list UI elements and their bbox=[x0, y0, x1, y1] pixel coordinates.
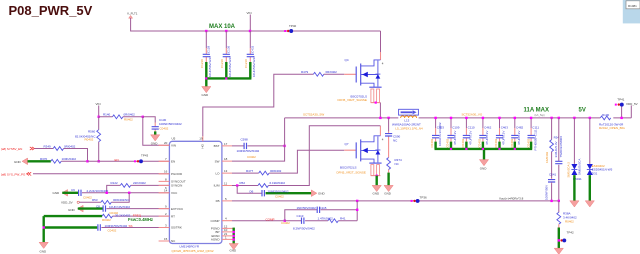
svg-text:TP36: TP36 bbox=[420, 196, 428, 200]
svg-text:DFN5_VR2T_SGNSE: DFN5_VR2T_SGNSE bbox=[338, 98, 367, 102]
svg-text:C136: C136 bbox=[227, 45, 231, 53]
svg-text:C129: C129 bbox=[207, 45, 211, 53]
transistor Q4 BSC0702LS bbox=[338, 52, 384, 103]
svg-text:R370: R370 bbox=[40, 157, 48, 161]
svg-text:0R/0402: 0R/0402 bbox=[124, 113, 136, 117]
annotation 5V bbox=[579, 107, 586, 113]
svg-text:R100: R100 bbox=[602, 113, 610, 117]
junction on VIN bus at C136 bbox=[225, 30, 227, 32]
junctions 5V rail right bbox=[550, 117, 591, 119]
svg-text:SS: SS bbox=[129, 224, 133, 228]
svg-text:10UF/10V/0402: 10UF/10V/0402 bbox=[109, 205, 130, 209]
capacitor C378 330UF bulk bbox=[554, 118, 563, 201]
ground D5011 bbox=[570, 175, 579, 207]
resistor R54 feedback top bbox=[545, 118, 559, 178]
svg-text:R0402: R0402 bbox=[565, 220, 574, 224]
svg-text:C463: C463 bbox=[501, 126, 509, 130]
tooltip R1081 bbox=[626, 1, 640, 9]
annotation 11A MAX bbox=[524, 107, 549, 117]
svg-text:R479: R479 bbox=[301, 70, 309, 74]
svg-text:C433: C433 bbox=[251, 45, 255, 53]
wire Q4 drain from VIN bus bbox=[380, 31, 382, 52]
resistor R38A 3.4K feedback bottom bbox=[557, 201, 577, 228]
resistor R52 6.19R ILIM bbox=[232, 126, 380, 188]
svg-text:R349: R349 bbox=[44, 144, 52, 148]
svg-text:R52: R52 bbox=[240, 181, 246, 185]
transistor Q7 BSC0702LS bbox=[337, 126, 384, 176]
svg-text:[a8] SYS_PW_PG: [a8] SYS_PW_PG bbox=[1, 173, 26, 177]
test point TP40 bbox=[284, 24, 296, 33]
ground Q7 source bbox=[372, 176, 381, 196]
svg-text:C541: C541 bbox=[549, 173, 557, 177]
svg-text:100NF/50V: 100NF/50V bbox=[544, 185, 548, 200]
ground tree lower left bbox=[39, 216, 102, 253]
net SYS5V_EN off-page bbox=[1, 147, 34, 151]
wire VO 5V rail bbox=[419, 117, 601, 119]
resistor R477 0R gate Q7 bbox=[232, 150, 344, 175]
U5 left pin labels bbox=[171, 144, 186, 244]
title P08_PWR_5V bbox=[9, 3, 93, 18]
svg-text:C482: C482 bbox=[516, 126, 524, 130]
resistor R479 0R gate Q4 bbox=[301, 70, 344, 76]
svg-text:1NF/50V/0402: 1NF/50V/0402 bbox=[297, 206, 317, 210]
test point TP42 bbox=[558, 228, 574, 249]
svg-text:COMP: COMP bbox=[266, 217, 275, 221]
junction FB R54 bbox=[550, 200, 552, 202]
ground EXTVCC cap bbox=[68, 205, 83, 212]
svg-text:0R/0402: 0R/0402 bbox=[270, 169, 282, 173]
resistor R560 82.0K NC bbox=[75, 117, 101, 162]
svg-text:GND: GND bbox=[40, 250, 48, 254]
capacitor C8 10UF bbox=[78, 204, 170, 215]
svg-text:U5: U5 bbox=[172, 137, 176, 141]
svg-text:C113: C113 bbox=[297, 214, 304, 218]
U5 right pin labels bbox=[201, 143, 221, 241]
wire HO gate drive bbox=[203, 74, 301, 136]
wire V_FLT1 to VIN bus bbox=[131, 18, 381, 31]
svg-text:16: 16 bbox=[164, 170, 168, 174]
svg-text:C9: C9 bbox=[71, 188, 75, 192]
svg-text:(1/1_5sp): (1/1_5sp) bbox=[535, 114, 545, 117]
svg-text:V_FLT1: V_FLT1 bbox=[127, 12, 138, 16]
junction comp riser C115 bbox=[356, 209, 358, 211]
junction FB R38A bbox=[558, 200, 560, 202]
capacitor C115 comp bbox=[285, 206, 357, 221]
svg-text:R1081: R1081 bbox=[628, 4, 637, 8]
svg-text:R477: R477 bbox=[246, 169, 254, 173]
capacitor C433 bbox=[244, 31, 256, 77]
svg-text:GND: GND bbox=[480, 167, 488, 171]
annotation MAX 10A bbox=[209, 24, 236, 30]
svg-text:330UF/6.3V: 330UF/6.3V bbox=[554, 141, 558, 157]
capacitor C109 bbox=[445, 118, 459, 148]
svg-text:GND: GND bbox=[318, 191, 326, 195]
svg-text:17: 17 bbox=[224, 142, 228, 146]
wire input caps ground bus bbox=[205, 62, 251, 87]
svg-text:RT: RT bbox=[171, 214, 175, 218]
svg-text:GND: GND bbox=[384, 192, 392, 196]
svg-text:PTH0805=C111: PTH0805=C111 bbox=[533, 129, 537, 150]
capacitor C598 bootstrap bbox=[232, 138, 285, 160]
svg-text:0R/0402/NC: 0R/0402/NC bbox=[113, 198, 130, 202]
svg-text:VIN: VIN bbox=[96, 102, 101, 106]
wire SW pin riser bbox=[232, 118, 285, 161]
svg-text:C0402: C0402 bbox=[83, 195, 92, 199]
junction Q4 source bbox=[375, 102, 377, 104]
svg-text:SCT52A30_SW: SCT52A30_SW bbox=[303, 113, 324, 117]
svg-text:GND: GND bbox=[151, 142, 159, 146]
resistor R122 22K bbox=[107, 181, 170, 193]
ground snubber bbox=[384, 173, 393, 196]
wire PGOOD bbox=[33, 173, 169, 175]
svg-text:22K/0402: 22K/0402 bbox=[133, 181, 146, 185]
ground C6 bbox=[311, 190, 325, 197]
svg-text:T520D337M006: T520D337M006 bbox=[559, 136, 563, 158]
svg-text:C598: C598 bbox=[241, 138, 249, 142]
junction R140/C130 bbox=[142, 116, 144, 118]
svg-text:TP40: TP40 bbox=[289, 24, 297, 28]
svg-text:Q4: Q4 bbox=[345, 58, 349, 62]
svg-text:GND: GND bbox=[230, 249, 238, 253]
svg-text:C109: C109 bbox=[452, 126, 460, 130]
svg-text:VCC: VCC bbox=[171, 191, 178, 195]
capacitor C111 bbox=[527, 118, 540, 151]
svg-text:GND: GND bbox=[14, 160, 22, 164]
ground U5 power pins bbox=[229, 228, 238, 253]
ground C130 bbox=[151, 131, 160, 145]
test point TP43 bbox=[134, 153, 149, 163]
svg-text:C0402: C0402 bbox=[445, 138, 449, 147]
ground R38A bbox=[554, 248, 563, 254]
resistor R41 comp bbox=[305, 217, 357, 223]
svg-text:[a8] SYS5V_EN: [a8] SYS5V_EN bbox=[1, 147, 22, 151]
inductor L13 bbox=[392, 109, 423, 130]
junction VIN left bbox=[98, 116, 100, 118]
svg-text:Fsw=0.4MHz: Fsw=0.4MHz bbox=[128, 217, 153, 222]
svg-text:EN: EN bbox=[115, 158, 119, 162]
svg-text:47UF/6.3V: 47UF/6.3V bbox=[485, 131, 489, 145]
svg-text:10UF/50V/1210: 10UF/50V/1210 bbox=[208, 56, 212, 77]
svg-text:47UF/6.3V: 47UF/6.3V bbox=[502, 131, 506, 145]
junction on VIN bus at C129 bbox=[205, 30, 207, 32]
wire output caps ground bus bbox=[435, 142, 533, 160]
junction FB comp riser bbox=[356, 200, 358, 202]
junction EN node b bbox=[98, 160, 100, 162]
svg-text:100NF/50V/0402: 100NF/50V/0402 bbox=[237, 149, 260, 153]
svg-text:C0402: C0402 bbox=[160, 126, 169, 130]
capacitor C453 bbox=[430, 118, 444, 148]
wire VIN to IC pin bbox=[143, 117, 170, 146]
svg-text:0R/0402: 0R/0402 bbox=[64, 144, 76, 148]
resistor R349 0R bbox=[35, 144, 88, 161]
capacitor C462 bbox=[477, 118, 491, 148]
svg-text:8.2NF/50V/0402: 8.2NF/50V/0402 bbox=[293, 227, 315, 231]
svg-text:R2012_OPEN_BIG: R2012_OPEN_BIG bbox=[599, 126, 626, 130]
svg-text:10UF/50V/1210: 10UF/50V/1210 bbox=[228, 56, 232, 77]
svg-text:2.2UF/10V/0402: 2.2UF/10V/0402 bbox=[87, 189, 109, 193]
junction BST/SW riser bbox=[283, 145, 285, 147]
junction SW at snubber bbox=[387, 117, 389, 119]
svg-text:C115: C115 bbox=[320, 206, 327, 210]
node VIN (top) bbox=[247, 11, 252, 31]
svg-text:Q7: Q7 bbox=[345, 142, 349, 146]
svg-text:C1210: C1210 bbox=[220, 59, 224, 68]
resistor R140 0R bbox=[99, 113, 143, 122]
svg-text:C8: C8 bbox=[96, 204, 100, 208]
svg-text:SYNCIN: SYNCIN bbox=[171, 184, 182, 188]
svg-text:47UF/6.3V: 47UF/6.3V bbox=[453, 131, 457, 145]
svg-text:1K/0402: 1K/0402 bbox=[545, 151, 549, 163]
capacitor C463 bbox=[494, 118, 508, 148]
svg-text:SS/TRK: SS/TRK bbox=[171, 226, 182, 230]
junction SW at Q4 bbox=[379, 117, 381, 119]
svg-text:C0402: C0402 bbox=[430, 138, 434, 147]
svg-text:15: 15 bbox=[164, 237, 168, 241]
svg-text:COMP: COMP bbox=[211, 219, 220, 223]
svg-text:R0402: R0402 bbox=[124, 117, 133, 121]
svg-text:BSC0702LS: BSC0702LS bbox=[340, 165, 357, 169]
U5 right pin stubs bbox=[199, 136, 233, 239]
wire COMP pin bbox=[232, 217, 285, 221]
svg-text:SMBJ5.0CA: SMBJ5.0CA bbox=[577, 159, 581, 175]
junction on VIN bus at C433 bbox=[249, 30, 251, 32]
svg-text:100K/0402: 100K/0402 bbox=[62, 157, 77, 161]
net VDD_5V bbox=[626, 102, 638, 118]
node V_FLT1 bbox=[127, 12, 138, 19]
svg-text:GND: GND bbox=[68, 208, 76, 212]
svg-text:C110: C110 bbox=[468, 126, 475, 130]
svg-text:GND: GND bbox=[53, 191, 61, 195]
resistor R370 100K bbox=[28, 157, 88, 163]
svg-text:PGOOD: PGOOD bbox=[171, 172, 183, 176]
svg-text:0R/0402: 0R/0402 bbox=[326, 70, 338, 74]
resistor R100 0R output jumper bbox=[599, 113, 631, 130]
svg-text:EXTVCC: EXTVCC bbox=[171, 207, 184, 211]
svg-text:GND: GND bbox=[373, 192, 381, 196]
capacitor C136 bbox=[220, 31, 232, 77]
svg-text:BST: BST bbox=[214, 144, 220, 148]
svg-text:1.47K/0402: 1.47K/0402 bbox=[318, 217, 334, 221]
capacitor C9 2.2UF bbox=[62, 188, 169, 199]
svg-text:LM5145RGYR: LM5145RGYR bbox=[180, 244, 200, 248]
svg-text:SM5.0CA-2: SM5.0CA-2 bbox=[567, 162, 571, 178]
svg-text:R53: R53 bbox=[92, 198, 98, 202]
svg-text:Vout(+)=R0Rx*3.8: Vout(+)=R0Rx*3.8 bbox=[499, 197, 524, 201]
svg-text:10NF/50V/0402: 10NF/50V/0402 bbox=[268, 189, 289, 193]
annotation Vout formula bbox=[499, 197, 524, 201]
capacitor C590 snubber NC bbox=[385, 118, 401, 142]
svg-text:C0402: C0402 bbox=[108, 229, 117, 233]
svg-text:R0402: R0402 bbox=[85, 138, 94, 142]
svg-text:R0402: R0402 bbox=[102, 218, 111, 222]
svg-text:L5_10P5X1.1P0_N4: L5_10P5X1.1P0_N4 bbox=[395, 127, 423, 131]
svg-text:14: 14 bbox=[164, 189, 168, 193]
svg-text:LO: LO bbox=[215, 171, 220, 175]
junction EN node a bbox=[86, 160, 88, 162]
wire Q4 source to SW bbox=[379, 103, 381, 118]
node VIN (left) bbox=[96, 102, 101, 117]
svg-text:47UF/6.3V: 47UF/6.3V bbox=[469, 131, 473, 145]
svg-text:R560: R560 bbox=[88, 130, 96, 134]
svg-text:TP43: TP43 bbox=[141, 153, 149, 157]
svg-text:18: 18 bbox=[224, 157, 228, 161]
svg-text:ILIM: ILIM bbox=[214, 184, 220, 188]
svg-text:C462: C462 bbox=[484, 126, 492, 130]
capacitor C110 bbox=[461, 118, 475, 148]
junction ILIM bbox=[236, 184, 238, 186]
svg-text:13: 13 bbox=[224, 169, 228, 173]
wire SW node bbox=[285, 117, 399, 119]
svg-text:5V: 5V bbox=[579, 107, 586, 113]
svg-text:TP41: TP41 bbox=[617, 98, 625, 102]
resistor R118 39.2K RT bbox=[102, 213, 169, 222]
junction Q7 source bbox=[376, 175, 378, 177]
cursor highlight rect bbox=[623, 0, 640, 23]
capacitor C129 bbox=[200, 31, 212, 77]
capacitor C6 ILIM filter bbox=[237, 186, 311, 199]
wire FB sense line bbox=[232, 200, 559, 202]
svg-text:GND: GND bbox=[202, 93, 210, 97]
svg-text:C0402: C0402 bbox=[477, 138, 481, 147]
svg-text:R122: R122 bbox=[111, 181, 119, 185]
svg-text:HO: HO bbox=[201, 143, 205, 148]
svg-text:VDD_5V: VDD_5V bbox=[626, 102, 638, 106]
junction VCC/R53 bbox=[128, 192, 130, 194]
ground input caps bbox=[202, 87, 211, 98]
svg-text:QFN20_3P5X4P5_HSM_QFN2: QFN20_3P5X4P5_HSM_QFN2 bbox=[172, 249, 214, 253]
svg-text:11: 11 bbox=[224, 181, 227, 185]
wire comp riser to FB bbox=[356, 201, 358, 221]
svg-text:SCT52A30_VO: SCT52A30_VO bbox=[462, 112, 483, 116]
net VDD_5V with R53 bbox=[61, 193, 130, 205]
capacitor C118 soft start bbox=[98, 224, 169, 232]
svg-text:C111: C111 bbox=[532, 126, 539, 130]
junctions VO rail caps bbox=[434, 117, 532, 119]
svg-text:C1210: C1210 bbox=[244, 59, 248, 68]
svg-text:R41: R41 bbox=[340, 217, 346, 221]
svg-text:D31: D31 bbox=[592, 171, 598, 175]
capacitor C113 comp bbox=[285, 214, 315, 231]
net label SCT52A30_VO bbox=[462, 112, 483, 116]
svg-text:20: 20 bbox=[164, 141, 168, 145]
wire EN to IC bbox=[88, 158, 170, 162]
svg-text:C0402: C0402 bbox=[461, 138, 465, 147]
svg-text:R140: R140 bbox=[103, 113, 111, 117]
junction COMP bbox=[281, 220, 290, 225]
svg-text:47UF/6.3V: 47UF/6.3V bbox=[517, 131, 521, 145]
svg-text:FB: FB bbox=[216, 199, 220, 203]
ground EN pulldown bbox=[14, 158, 28, 165]
svg-text:EN: EN bbox=[171, 160, 175, 164]
net label SCT52A30_SW bbox=[303, 113, 324, 117]
svg-text:6.19R/0402: 6.19R/0402 bbox=[270, 181, 286, 185]
svg-text:D6: D6 bbox=[250, 189, 254, 193]
svg-text:11A MAX: 11A MAX bbox=[524, 107, 549, 113]
capacitor C130 bbox=[143, 117, 182, 132]
ground output caps bbox=[479, 160, 488, 171]
svg-text:SW: SW bbox=[215, 159, 220, 163]
svg-text:TP42: TP42 bbox=[567, 231, 575, 235]
net SYS_PW_PG off-page bbox=[1, 172, 31, 176]
ground D31 bbox=[585, 175, 594, 207]
U5 left pin stubs bbox=[159, 141, 170, 241]
svg-text:MAX 10A: MAX 10A bbox=[209, 24, 236, 30]
junction VCC/R122 bbox=[106, 192, 108, 194]
resistor R374 snubber NC bbox=[387, 141, 402, 173]
capacitor C541 feedforward bbox=[544, 173, 556, 201]
svg-text:19: 19 bbox=[199, 137, 203, 141]
test point TP36 bbox=[411, 196, 427, 203]
svg-text:10UF/50V/1210: 10UF/50V/1210 bbox=[252, 56, 256, 77]
svg-text:C1210: C1210 bbox=[200, 59, 204, 68]
svg-text:C0402: C0402 bbox=[281, 221, 290, 225]
svg-text:100UF/6.3V/0402: 100UF/6.3V/0402 bbox=[438, 122, 442, 146]
svg-text:AGND: AGND bbox=[211, 238, 221, 242]
svg-text:VDD_5V: VDD_5V bbox=[61, 200, 73, 204]
test point TP41 bbox=[615, 98, 625, 120]
capacitor C482 bbox=[510, 118, 523, 148]
svg-text:VIN: VIN bbox=[247, 11, 252, 15]
svg-text:C0402: C0402 bbox=[494, 138, 498, 147]
svg-text:C0402: C0402 bbox=[275, 195, 284, 199]
diode D5011 TVS SMBJ5.0CA bbox=[567, 118, 582, 181]
ground VCC cap bbox=[53, 190, 68, 197]
svg-text:C0402: C0402 bbox=[247, 155, 256, 159]
svg-text:DFN5_VR2T_SGNSE: DFN5_VR2T_SGNSE bbox=[337, 171, 366, 175]
svg-text:P08_PWR_5V: P08_PWR_5V bbox=[9, 3, 93, 18]
diode D31 TVS ESD5451N bbox=[587, 118, 613, 175]
op-amp U5 LM5145RGYR controller body bbox=[169, 137, 222, 254]
svg-text:VIN: VIN bbox=[171, 144, 176, 148]
